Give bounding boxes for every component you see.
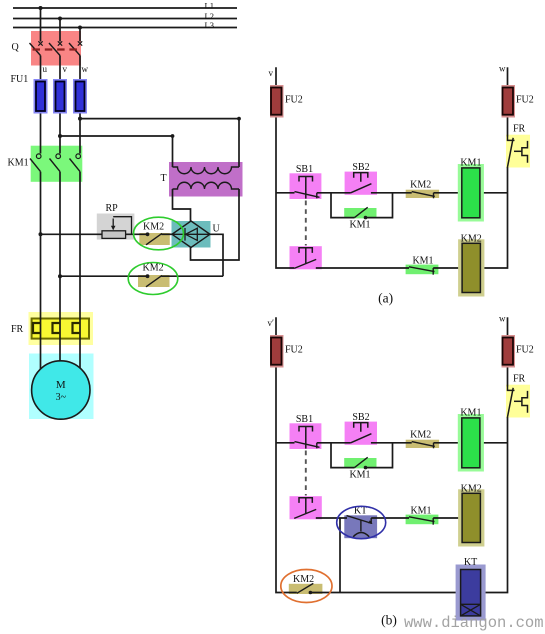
coil KM2a glow [458, 239, 484, 296]
svg-text:Q: Q [12, 42, 20, 53]
node v-line tap [58, 134, 62, 138]
wire branch a right side [366, 193, 393, 218]
svg-text:SB2: SB2 [352, 162, 369, 173]
fuse FU2b left glow [270, 335, 284, 368]
wire line1 b: SB2 to KM2 [371, 442, 412, 444]
wire L1 drop to Q pole1 [40, 8, 42, 42]
wire u tap to RP [41, 233, 103, 235]
thermal contact FRa link [514, 150, 522, 152]
wire L1 [13, 7, 237, 9]
wire line2 b: SB1NO to KT [316, 517, 347, 519]
highlight SB1a NC box [290, 173, 322, 199]
contact KM2b NC stub [433, 443, 435, 449]
svg-text:www.diangon.com: www.diangon.com [404, 614, 544, 632]
contact KM1a NC stub [432, 268, 434, 275]
svg-text:u: u [43, 64, 48, 74]
fuse FU2b right body [503, 338, 514, 365]
highlight SB2b box [345, 422, 377, 445]
wire branch b around SB2 [331, 443, 355, 468]
svg-text:KM1: KM1 [8, 158, 29, 169]
node L2 tap [58, 17, 62, 21]
coil KM2b glow [458, 489, 484, 546]
rectifier U diode triangle [186, 228, 198, 240]
svg-text:(b): (b) [381, 613, 397, 628]
button SB1a NO blade [294, 259, 316, 268]
contact KM1b NC stub [432, 518, 434, 525]
wire v phase Q to KM1 [59, 56, 61, 154]
switch Q pole1 blade [30, 43, 41, 56]
svg-text:v′: v′ [268, 318, 275, 328]
svg-text:RP: RP [106, 203, 119, 214]
wire RP to KM2 contact1 [126, 233, 148, 235]
button SB1b NO actuator [299, 498, 312, 514]
contact KM2b NC blade [412, 442, 435, 447]
node v-line tap KM2 [58, 274, 62, 278]
button SB1b blade [295, 442, 320, 448]
highlight FR main glow [29, 312, 94, 345]
timer contact KT blade [347, 516, 371, 523]
rheostat RP wiper link [113, 217, 131, 235]
wire w tap to transformer primary right [80, 119, 239, 167]
timer contact KT dome [353, 533, 369, 537]
node w-line tap [78, 117, 82, 121]
contactor KM1 pole1 arc [36, 154, 41, 159]
thermal contact FRa top stub [508, 137, 515, 141]
svg-text:FU2: FU2 [285, 345, 303, 356]
node primary left corner [171, 134, 175, 138]
svg-text:KT: KT [464, 557, 477, 568]
coil KM1a glow [458, 164, 484, 222]
wire w phase KM1 to motor [79, 172, 81, 370]
wire KM2 contact1 to rectifier left [162, 233, 173, 235]
wire L3 [13, 27, 237, 29]
contactor KM1 pole3 arc [76, 154, 81, 159]
contact KM2a NC blade [412, 192, 435, 197]
switch Q pole2 x-mark [58, 41, 62, 45]
wire u phase Q to KM1 [40, 56, 42, 154]
wire line1 b: KM2 to KM1 coil [434, 442, 462, 444]
rheostat RP wiper arm [112, 219, 114, 228]
svg-text:KM1: KM1 [412, 255, 433, 266]
svg-text:3~: 3~ [56, 392, 67, 403]
contactor KM1 pole1 blade [30, 159, 41, 172]
contact KM2-2 blade [146, 275, 162, 286]
button SB1a NO actuator [299, 248, 312, 263]
coil KM2b body [462, 493, 480, 542]
wire line1 a: rail to SB1 [276, 192, 295, 194]
button SB1b NO blade [294, 509, 316, 518]
wire SB1a linkage dashed [305, 201, 307, 246]
svg-text:w: w [499, 314, 506, 324]
wire v tap to KM2 contact2 [60, 275, 148, 277]
coil KM1a body [462, 168, 480, 218]
coil KT body [461, 570, 481, 616]
thermal contact FRb top stub [508, 387, 515, 391]
timer contact KT right stub [370, 518, 372, 524]
highlight KM2a NC box [406, 190, 439, 198]
svg-text:M: M [56, 379, 66, 391]
contact KM2-2 dot [146, 274, 150, 278]
node primary right corner [237, 117, 241, 121]
svg-text:KM2: KM2 [143, 263, 164, 274]
button SB1b actuator [299, 427, 313, 449]
wire left rail a [276, 67, 294, 268]
wire line1 b: KM1 coil to rail [480, 442, 508, 444]
wire right rail b upper [507, 317, 509, 386]
highlight KM1 main contacts box [31, 146, 83, 182]
svg-text:FR: FR [513, 124, 526, 135]
svg-text:FU2: FU2 [285, 95, 303, 106]
button SB1a right stub [316, 193, 318, 199]
fuse FU1-1 body [36, 82, 45, 112]
contact KM2-1 dot [146, 232, 150, 236]
svg-text:L1: L1 [205, 1, 214, 11]
rectifier U diamond [172, 221, 210, 248]
highlight KM1b NC box [406, 515, 439, 525]
contact KM1a NC blade [409, 267, 435, 272]
contactor KM1 pole2 blade [50, 159, 61, 172]
timer contact KT stem [360, 520, 362, 531]
fuse FU2a left glow [270, 85, 284, 118]
svg-text:T: T [161, 173, 167, 184]
wire right rail b lower [481, 417, 508, 593]
svg-text:KM2: KM2 [410, 179, 431, 190]
highlight transformer T box [169, 162, 243, 197]
wire line1 a: SB2 to KM2 [371, 192, 412, 194]
svg-text:FU2: FU2 [516, 345, 534, 356]
fuse FU2b left body [271, 338, 282, 365]
node L1 tap [39, 6, 43, 10]
svg-text:KM1: KM1 [349, 470, 370, 481]
FR main inner yellow box [32, 319, 89, 339]
wire L2 [13, 18, 237, 20]
fuse FU2b right glow [502, 335, 516, 368]
button SB2b blade [351, 434, 372, 443]
node u-line tap RP [39, 232, 43, 236]
svg-text:w: w [499, 64, 506, 74]
highlight rectifier U box [172, 221, 211, 248]
thermal FR heater2 [53, 323, 61, 333]
svg-text:FR: FR [11, 324, 24, 335]
svg-text:FU2: FU2 [516, 95, 534, 106]
thermal contact FRb link [514, 400, 522, 402]
ellipse around KM2-1 [134, 217, 184, 250]
svg-text:SB1: SB1 [296, 164, 313, 175]
svg-text:KM2: KM2 [461, 484, 482, 495]
switch Q pole1 x-mark [38, 41, 42, 45]
highlight KM2b NC box [406, 440, 439, 448]
wire SB1b linkage dashed [305, 451, 307, 496]
svg-text:KM1: KM1 [349, 220, 370, 231]
svg-text:KM1: KM1 [460, 157, 481, 168]
fuse FU2a right glow [502, 85, 516, 118]
highlight KM2 contact1 box [139, 233, 170, 245]
wire line1 a: SB1 to SB2 [317, 192, 351, 194]
wire line1 a: KM1 coil to rail [480, 192, 508, 194]
svg-text:KM2: KM2 [293, 574, 314, 585]
button SB2a blade [351, 184, 372, 193]
wire line3 b: KM2NO to KT coil [310, 592, 460, 594]
switch Q pole3 x-mark [78, 41, 82, 45]
svg-text:KM2: KM2 [143, 222, 164, 233]
coil KM2a body [462, 243, 480, 292]
contactor KM1 pole3 blade [70, 159, 81, 172]
contact KM1b NC blade [409, 517, 435, 522]
highlight SB2a box [345, 172, 377, 195]
wire line2 a: KM1NC to KM2 coil [433, 267, 462, 269]
wire right rail a lower [480, 167, 507, 268]
highlight KT contact box [344, 515, 377, 538]
button SB1a actuator [299, 177, 313, 199]
svg-text:KM1: KM1 [410, 505, 431, 516]
transformer T secondary winding [173, 182, 240, 189]
coil KM1b body [462, 418, 480, 468]
rectifier U diode cathode [184, 228, 186, 241]
fuse FU1-2 body [56, 82, 65, 112]
contact KM2a NC stub [433, 193, 435, 199]
svg-text:FR: FR [513, 374, 526, 385]
svg-text:U: U [213, 224, 221, 235]
svg-text:SB2: SB2 [352, 412, 369, 423]
svg-text:(a): (a) [378, 291, 393, 306]
highlight motor box [29, 354, 94, 420]
wire right rail a upper [507, 67, 509, 136]
fuse FU1-1 glow [34, 79, 48, 114]
highlight FRb contact box [506, 385, 530, 418]
highlight KM1a NC box [406, 265, 439, 275]
ellipse around KT contact [337, 506, 386, 538]
highlight KM2 contact2 box [138, 275, 170, 287]
svg-text:KM2: KM2 [410, 429, 431, 440]
svg-text:FU1: FU1 [11, 74, 29, 85]
motor M circle [32, 361, 90, 419]
wire line2 b: KM1NC to KM2 coil [433, 517, 462, 519]
wire v tap to transformer primary left [60, 136, 173, 167]
wire line2 a: SB1NO to KM1NC [316, 267, 409, 269]
wire L3 drop to Q pole3 [79, 28, 81, 42]
switch Q pole2 blade [49, 43, 60, 56]
svg-text:v: v [63, 64, 68, 74]
button SB1a blade [295, 192, 320, 198]
thermal contact FRa blade [508, 138, 514, 167]
fuse FU1-3 glow [73, 79, 87, 114]
button SB2b actuator [354, 423, 368, 432]
switch Q linkage dashed [33, 48, 78, 50]
contact KM1a aux blade [355, 207, 368, 217]
wire branch b right side [366, 443, 393, 468]
switch Q pole3 blade [69, 43, 80, 56]
svg-text:v: v [269, 68, 274, 78]
fuse FU2a left body [271, 88, 282, 115]
wire KM2 contact2 to corner [162, 275, 224, 277]
wire transformer secondary right to rectifier bottom [191, 189, 240, 260]
contact KM2-1 blade [146, 233, 162, 244]
wire line1 b: rail to SB1 [276, 442, 295, 444]
highlight FRa contact box [506, 135, 530, 168]
rheostat RP body [102, 231, 126, 239]
coil KT glow [456, 565, 486, 621]
wire left rail b [276, 317, 297, 592]
wire line2 b: KT to KM1NC [371, 517, 409, 519]
rectifier U diode bar line [172, 233, 210, 235]
timer contact KT arrowhead [368, 520, 372, 523]
wire rectifier right to corner [210, 234, 223, 276]
thermal contact FRb meander [522, 391, 528, 413]
coil KT divider [461, 603, 481, 605]
thermal contact FRa meander [522, 141, 528, 163]
contactor KM1 pole2 arc [56, 154, 61, 159]
highlight KM2b NO box [289, 584, 323, 594]
contact KM1a aux dot [364, 216, 368, 220]
ellipse around KM2b NO [281, 570, 332, 603]
highlight SB1b NO box [290, 496, 322, 519]
contact KM1b aux dot [364, 466, 368, 470]
wire u phase KM1 to motor [40, 172, 42, 370]
wire transformer secondary left to rectifier top [173, 189, 191, 221]
coil KT cross [461, 604, 481, 616]
highlight KM1b aux box [344, 458, 376, 468]
thermal contact FRb blade [508, 388, 514, 417]
wire line1 a: KM2 to KM1 coil [434, 192, 462, 194]
contact KM2b NO dot [309, 591, 313, 595]
coil KM1b glow [458, 414, 484, 472]
svg-text:KM1: KM1 [460, 407, 481, 418]
button SB2a actuator [354, 173, 368, 182]
wire w phase Q to KM1 [79, 56, 81, 154]
highlight Q switch box [31, 31, 81, 66]
highlight SB1b NC box [290, 423, 322, 449]
svg-text:SB1: SB1 [296, 414, 313, 425]
wire branch a around SB2 [331, 193, 355, 218]
ellipse around KM2-2 [128, 263, 178, 295]
svg-text:w: w [82, 64, 89, 74]
thermal FR heater1 [33, 323, 41, 333]
wire v phase KM1 to motor [59, 172, 61, 362]
highlight RP box [97, 214, 135, 240]
highlight KM1a aux box [344, 208, 376, 218]
contact KM1b aux blade [355, 457, 368, 467]
thermal FR heater3 [73, 323, 81, 333]
highlight SB1a NO box [290, 246, 322, 269]
node L3 tap [78, 26, 82, 30]
wire KT tap drop [339, 518, 341, 593]
fuse FU1-3 body [76, 82, 85, 112]
wire line1 b: SB1 to SB2 [317, 442, 351, 444]
rheostat RP wiper arrowhead [111, 226, 116, 231]
transformer T primary winding [173, 167, 240, 174]
svg-text:KM2: KM2 [461, 234, 482, 245]
svg-text:L3: L3 [205, 20, 214, 30]
button SB1b right stub [316, 443, 318, 449]
wire L2 drop to Q pole2 [59, 19, 61, 42]
contact KM2b NO blade [297, 583, 314, 593]
fuse FU2a right body [503, 88, 514, 115]
fuse FU1-2 glow [53, 79, 67, 114]
